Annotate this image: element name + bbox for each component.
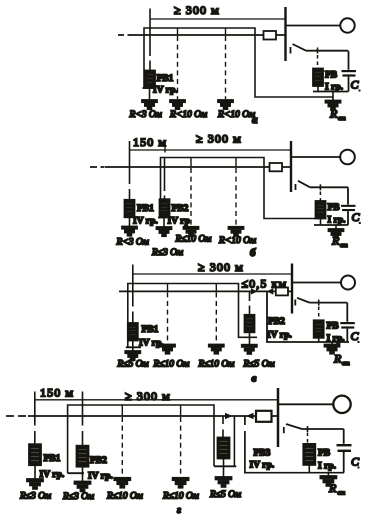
wire: capacitor bottom lead (fig a): [348, 77, 350, 92]
value label R<3 Om (fig a): [129, 110, 162, 120]
tower 1 dashed drop (fig a): [177, 28, 179, 35]
svg-text:≥ 300 м: ≥ 300 м: [198, 260, 244, 274]
label C (fig a): [351, 78, 361, 92]
dashed link to arrester PB (fig a): [317, 55, 319, 69]
wire: tap for PB2 (fig b): [164, 158, 166, 199]
label PB (fig a): [325, 71, 338, 81]
value label R<=5 Om PB2 (fig v): [243, 360, 275, 370]
svg-text:R≤3 Ом: R≤3 Ом: [19, 492, 51, 502]
cable box rectangle (fig a): [264, 31, 277, 40]
wire: PB1 ground stem (fig b): [129, 217, 131, 226]
dashed link to arrester PB (fig g): [307, 433, 309, 444]
arrester PB1 (fig a): [145, 71, 155, 89]
wire: sheath drop at PB3 (fig g): [233, 416, 235, 466]
ground R<3 Om (fig a): [142, 100, 157, 109]
label IV gr. PB2 (fig g): [88, 472, 113, 482]
switch contact tick (fig g): [283, 427, 285, 433]
wire: capacitor top lead (fig g): [343, 429, 345, 444]
switch contact tick (fig a): [290, 47, 292, 54]
dimension line (fig v): [133, 273, 292, 275]
capacitor C (fig v): [340, 322, 355, 329]
svg-text:IV гр.: IV гр.: [153, 86, 178, 96]
svg-text:РВ3: РВ3: [254, 449, 271, 459]
value label R<10 Om second (fig a): [217, 110, 255, 120]
wire: cable sheath earth link (fig v): [267, 291, 349, 342]
arrester PB2 IV gr. (fig v): [245, 315, 255, 333]
label IV gr. PB1 (fig v): [139, 339, 164, 349]
wire: capacitor bottom lead (fig b): [347, 211, 349, 225]
wire: PB2 ground stem (fig v): [249, 332, 251, 344]
wire: substation ground stem (fig g): [327, 473, 329, 476]
svg-text:R≤3 Ом: R≤3 Ом: [151, 248, 183, 258]
tower 1 dashed drop (fig g): [121, 405, 123, 416]
wire: capacitor bottom lead (fig g): [343, 452, 345, 473]
wire: ground interconnection PB1 to substation earth (fig a): [144, 28, 333, 97]
switch contact tick (fig b): [295, 184, 297, 190]
ground R<=10 Om tower2 (fig g): [173, 478, 189, 488]
wire: phase line lead-in dashes (fig b): [90, 166, 105, 168]
svg-text:R<3 Ом: R<3 Ом: [129, 110, 162, 120]
label Rst (fig v): [333, 352, 350, 368]
wire: phase line (fig g): [28, 415, 278, 417]
ground R<=5 Om (fig v): [125, 351, 140, 360]
wire: PB bottom stem (fig a): [317, 86, 319, 92]
svg-text:РВ2: РВ2: [90, 456, 107, 466]
wire: switch to capacitor (fig a): [306, 50, 348, 52]
dimension arrow left (fig v): [267, 288, 274, 294]
wire: ground interconnection PB2-PB3 (fig g): [68, 405, 214, 473]
value label R<=5 Om PB3 (fig g): [209, 490, 241, 500]
wire: cable sheath earth link to substation (fig g): [245, 416, 344, 473]
svg-text:г: г: [177, 504, 181, 516]
svg-text:R≤5 Ом: R≤5 Ом: [209, 490, 241, 500]
value label R<=10 Om (fig b): [175, 235, 212, 245]
dimension label >=300 m (fig a): [174, 3, 220, 17]
svg-text:ст: ст: [338, 490, 346, 497]
dimension arrow left (fig g): [246, 413, 254, 419]
wire: PB3 ground stem (fig g): [223, 466, 225, 477]
label Rst (fig a): [329, 107, 346, 123]
svg-text:R≤10 Ом: R≤10 Ом: [106, 492, 143, 502]
wire: tap for PB3 (fig g): [222, 416, 224, 438]
dimension label >=300 m (fig b): [196, 132, 242, 146]
dimension line (fig b): [130, 149, 291, 151]
cable box rectangle (fig g): [256, 411, 272, 422]
svg-text:РВ2: РВ2: [268, 317, 285, 327]
ground R<=5 Om PB2 (fig v): [242, 345, 257, 354]
junction tick to PB branch (fig b): [319, 184, 321, 190]
dimension label 150 m (fig g): [40, 386, 74, 400]
wire: tap + dim tick for PB1 (fig v): [132, 265, 134, 324]
arrester PB1 (fig g): [29, 444, 41, 465]
svg-text:R: R: [331, 234, 340, 248]
ground R<=10 Om tower2 (fig v): [209, 345, 224, 354]
sub-figure letter a: [252, 114, 258, 126]
svg-text:IV гр.: IV гр.: [88, 472, 113, 482]
svg-text:ст: ст: [340, 242, 348, 249]
wire: branch bottom (fig b): [314, 224, 348, 226]
label PB2 (fig b): [172, 204, 189, 214]
arrester PB I gr. (fig a): [313, 69, 323, 87]
svg-text:R≤10 Ом: R≤10 Ом: [198, 360, 235, 370]
wire: bus to machine (fig v): [292, 282, 341, 284]
label C (fig v): [351, 329, 360, 343]
label PB1 (fig b): [137, 204, 154, 214]
node: PB2 bottom bar (fig b): [158, 217, 168, 219]
svg-text:а: а: [252, 114, 258, 126]
wire: capacitor top lead (fig b): [347, 187, 349, 204]
wire: PB2 ground stem (fig g): [82, 467, 84, 482]
sub-figure letter v: [252, 373, 257, 385]
label IV gr. PB2 (fig v): [267, 331, 292, 341]
svg-text:R: R: [329, 107, 338, 121]
arrester PB I gr. (fig v): [314, 320, 324, 338]
switch blade (fig v): [297, 298, 310, 303]
wire: phase line (fig v): [119, 290, 292, 292]
label PB1 (fig g): [44, 454, 61, 464]
svg-text:C: C: [351, 329, 360, 343]
svg-text:РВ: РВ: [325, 71, 338, 81]
machine G1 (fig a): [340, 18, 354, 32]
dimension tick at PB2 (fig b): [164, 142, 166, 153]
wire: PB bottom stem (fig v): [318, 338, 320, 342]
svg-text:R≤10 Ом: R≤10 Ом: [162, 492, 199, 502]
cable box rectangle (fig v): [276, 288, 288, 296]
svg-text:РВ1: РВ1: [157, 74, 174, 84]
svg-text:R<3 Ом: R<3 Ом: [116, 238, 149, 248]
svg-text:R≤5 Ом: R≤5 Ом: [117, 360, 149, 370]
svg-text:РВ: РВ: [318, 449, 331, 459]
value label R<=10 Om tower1 (fig g): [106, 492, 143, 502]
ground R<=3 Om PB2 (fig g): [75, 482, 91, 492]
svg-text:R≤10 Ом: R≤10 Ом: [153, 360, 190, 370]
svg-text:R<10 Ом: R<10 Ом: [217, 110, 255, 120]
svg-text:РВ: РВ: [327, 322, 340, 332]
value label R<=10 Om (fig v): [153, 360, 190, 370]
ground Rst (fig g): [320, 476, 336, 486]
svg-text:≥ 300 м: ≥ 300 м: [125, 389, 171, 403]
ground R<=10 Om tower1 (fig g): [114, 478, 130, 488]
wire: PB2 ground stem (fig b): [163, 218, 165, 228]
label IV gr. (fig a): [153, 86, 178, 96]
label PB1 (fig v): [142, 325, 159, 335]
sub-figure letter g: [177, 504, 181, 516]
wire: phase line lead-in dashes (fig a): [118, 34, 131, 36]
wire: phase line (fig b): [105, 166, 291, 168]
wire: bus to machine (fig a): [286, 25, 341, 27]
value label R<3 Om (fig b): [116, 238, 149, 248]
wire: tap + dim tick for PB1 (fig b): [129, 141, 131, 200]
svg-text:R≤5 Ом: R≤5 Ом: [243, 360, 275, 370]
ground R<=5 Om PB3 (fig g): [216, 477, 232, 487]
arrester PB1 (fig v): [128, 323, 138, 341]
svg-text:IV гр: IV гр: [168, 217, 190, 227]
wire: substation ground stem (fig v): [331, 342, 333, 345]
dashed link to arrester PB (fig v): [318, 307, 320, 321]
switch blade (fig a): [293, 44, 307, 51]
label PB (fig v): [327, 322, 340, 332]
label I gr. (fig a): [325, 83, 343, 93]
wire: PB3 bottom stem (fig g): [223, 459, 225, 467]
svg-text:в: в: [252, 373, 257, 385]
dimension label 150 m (fig b): [133, 135, 167, 149]
wire: PB bottom stem (fig b): [320, 219, 322, 226]
node: PB2 bottom bar (fig g): [68, 472, 84, 474]
value label R<10 Om (fig a): [169, 110, 207, 120]
switch contact tick (fig v): [294, 300, 296, 306]
arrester PB I gr. (fig g): [303, 444, 315, 465]
wire: PB bottom stem (fig g): [308, 465, 310, 473]
cable box rectangle (fig b): [270, 163, 283, 171]
tower 1 dashed drop (fig v): [167, 284, 169, 292]
ground Rst (fig b): [329, 229, 344, 238]
wire: ground interconnection PB2 to substation earth (fig b): [161, 158, 320, 219]
ground R<=3 Om PB1 (fig g): [27, 479, 43, 489]
wire: branch bottom (fig a): [313, 91, 349, 93]
svg-text:≥ 300 м: ≥ 300 м: [196, 132, 242, 146]
label C (fig b): [352, 210, 361, 224]
wire: switch to capacitor (fig v): [310, 302, 348, 304]
arrester PB2 (fig b): [160, 199, 170, 217]
label PB2 (fig g): [90, 456, 107, 466]
svg-text:РВ: РВ: [328, 203, 341, 213]
ground R<10 Om tower1 (fig a): [170, 100, 185, 109]
tower 1 dashed drop (fig b): [190, 158, 192, 168]
label Rst (fig g): [328, 481, 345, 497]
svg-text:ст: ст: [342, 360, 350, 367]
machine G1 (fig g): [333, 396, 350, 413]
svg-text:I гр.: I гр.: [328, 216, 346, 226]
value label R<=5 Om (fig v): [117, 360, 149, 370]
tower 2 dashed drop (fig b): [235, 158, 237, 168]
svg-text:R: R: [333, 352, 342, 366]
wire: PB1 ground stem (fig a): [149, 88, 151, 100]
wire: bus to machine (fig g): [278, 403, 333, 405]
wire: tap + dim tick for PB1 (fig a): [149, 9, 151, 71]
tower 2 dashed drop (fig a): [225, 28, 227, 35]
ground R<=10 Om tower1 (fig v): [160, 345, 175, 354]
tower 2 dashed drop (fig v): [215, 284, 217, 292]
svg-text:C: C: [351, 78, 360, 92]
svg-text:150 м: 150 м: [133, 135, 167, 149]
switch blade (fig b): [298, 181, 310, 188]
machine G1 (fig b): [340, 150, 355, 165]
label PB (fig b): [328, 203, 341, 213]
svg-text:IV гр.: IV гр.: [40, 470, 65, 480]
junction tick to PB branch (fig v): [318, 300, 320, 306]
svg-text:R<10 Ом: R<10 Ом: [169, 110, 207, 120]
svg-text:C: C: [352, 210, 361, 224]
svg-text:IV гр.: IV гр.: [267, 331, 292, 341]
label PB2 (fig v): [268, 317, 285, 327]
junction tick to PB branch (fig g): [307, 426, 309, 432]
ground R<=10 Om tower1 (fig b): [184, 227, 199, 236]
arrester PB3 (fig g): [218, 438, 230, 459]
capacitor C (fig a): [342, 70, 357, 77]
ground R<=3 Om (fig b): [157, 227, 172, 236]
dimension line (fig g): [35, 399, 278, 401]
svg-text:I гр.: I гр.: [318, 462, 336, 472]
svg-text:РВ1: РВ1: [137, 204, 154, 214]
value label R<=10 Om tower2 (fig g): [162, 492, 199, 502]
value label R<=3 Om (fig b): [151, 248, 183, 258]
wire: capacitor bottom lead (fig v): [346, 329, 348, 342]
busbar (fig v): [291, 264, 293, 314]
machine G1 (fig v): [341, 276, 355, 290]
capacitor C (fig g): [337, 444, 352, 452]
label PB1 (fig a): [157, 74, 174, 84]
ground R<10 Om tower2 (fig b): [229, 227, 244, 236]
busbar (fig b): [290, 141, 292, 192]
arrester PB I gr. (fig b): [316, 201, 326, 219]
svg-text:R<10 Ом: R<10 Ом: [218, 236, 256, 246]
svg-text:I гр.: I гр.: [327, 334, 345, 344]
wire: tap + dim tick for PB1 (fig g): [34, 392, 36, 445]
value label R<=10 Om second (fig v): [198, 360, 235, 370]
busbar (fig a): [284, 7, 286, 61]
svg-text:IV гр.: IV гр.: [133, 217, 158, 227]
svg-text:б: б: [250, 247, 256, 259]
busbar (fig g): [277, 388, 280, 447]
ground Rst (fig v): [325, 345, 340, 354]
svg-text:РВ1: РВ1: [44, 454, 61, 464]
label IV gr. PB3 (fig g): [250, 461, 275, 471]
wire: capacitor top lead (fig v): [346, 303, 348, 322]
wire: substation ground stem (fig a): [332, 92, 334, 101]
label Rst (fig b): [331, 234, 348, 250]
label C (fig g): [351, 455, 360, 469]
wire: substation ground stem (fig b): [335, 225, 337, 229]
ground Rst (fig a): [326, 101, 341, 110]
label I gr. (fig g): [318, 462, 336, 472]
wire: PB1 ground stem (fig g): [34, 465, 36, 479]
label IV gr. PB2 (fig b): [168, 217, 190, 227]
node: PB3 bottom bar (fig g): [214, 465, 236, 467]
value label R<10 Om (fig b): [218, 236, 256, 246]
dimension label <=0,5 km (fig v): [242, 277, 288, 291]
label I gr. (fig v): [327, 334, 345, 344]
label I gr. (fig b): [328, 216, 346, 226]
wire: PB1 ground stem (fig v): [132, 341, 134, 352]
dimension arrow right (fig v): [251, 288, 258, 294]
label PB3 (fig g): [254, 449, 271, 459]
svg-text:R≤3 Ом: R≤3 Ом: [62, 492, 94, 502]
wire: capacitor top lead (fig a): [348, 51, 350, 70]
junction tick to PB branch (fig a): [317, 48, 319, 54]
arrester PB1 (fig b): [125, 200, 135, 218]
svg-text:ст: ст: [338, 115, 346, 122]
dimension label >=300 m (fig v): [198, 260, 244, 274]
dimension line >=300 m (fig a): [150, 18, 286, 20]
wire: phase line lead-in dashes (fig g): [6, 415, 26, 417]
label PB (fig g): [318, 449, 331, 459]
svg-text:IV гр.: IV гр.: [250, 461, 275, 471]
svg-text:≥ 300 м: ≥ 300 м: [174, 3, 220, 17]
tower 2 dashed drop (fig g): [180, 405, 182, 416]
node: PB1 bottom bar (fig v): [126, 346, 141, 348]
switch blade (fig g): [286, 424, 302, 429]
svg-text:C: C: [351, 455, 360, 469]
arrester PB2 (fig g): [77, 446, 89, 467]
capacitor C (fig b): [341, 205, 356, 211]
dashed link to arrester PB (fig b): [319, 192, 321, 202]
svg-text:РВ2: РВ2: [172, 204, 189, 214]
wire: tap + dim tick for PB2 (fig g): [82, 392, 84, 446]
wire: tap for PB2 (fig v): [249, 291, 251, 314]
node: PB1 bottom bar (fig a): [143, 87, 157, 89]
label IV gr. PB1 (fig b): [133, 217, 158, 227]
wire: switch to capacitor (fig g): [302, 428, 344, 430]
wire: phase line (fig a): [130, 34, 286, 36]
ground R<3 Om (fig b): [122, 227, 137, 236]
wire: ground interconnection PB1-PB2 (fig v): [128, 284, 257, 348]
label IV gr. PB1 (fig g): [40, 470, 65, 480]
sub-figure letter b: [250, 247, 256, 259]
ground R<10 Om tower2 (fig a): [218, 100, 233, 109]
value label R<=3 Om PB2 (fig g): [62, 492, 94, 502]
wire: bus to machine (fig b): [291, 156, 340, 158]
svg-text:РВ1: РВ1: [142, 325, 159, 335]
svg-text:R≤10 Ом: R≤10 Ом: [175, 235, 212, 245]
wire: switch to capacitor (fig b): [310, 186, 348, 188]
dimension label >=300 m (fig g): [125, 389, 171, 403]
value label R<=3 Om PB1 (fig g): [19, 492, 51, 502]
svg-text:150 м: 150 м: [40, 386, 74, 400]
dimension arrow right (fig g): [225, 413, 233, 419]
svg-text:R: R: [328, 481, 337, 495]
